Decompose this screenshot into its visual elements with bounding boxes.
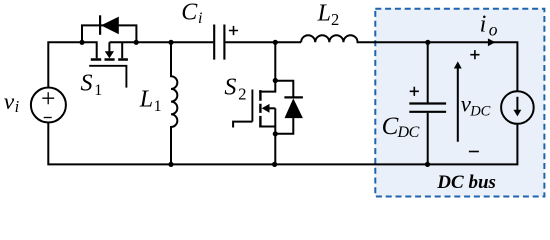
svg-text:C: C [382, 113, 399, 140]
svg-text:i: i [15, 97, 20, 116]
svg-text:1: 1 [94, 82, 102, 99]
svg-text:DC: DC [397, 124, 420, 141]
svg-text:S: S [81, 71, 93, 97]
svg-text:2: 2 [331, 10, 339, 29]
svg-text:DC bus: DC bus [436, 172, 496, 193]
svg-text:o: o [489, 20, 498, 40]
svg-text:L: L [317, 1, 331, 27]
svg-text:S: S [224, 75, 236, 101]
svg-text:i: i [198, 10, 202, 27]
svg-text:i: i [480, 12, 487, 38]
svg-text:v: v [4, 89, 15, 115]
svg-text:C: C [181, 0, 198, 26]
svg-text:L: L [139, 87, 153, 113]
svg-text:DC: DC [469, 103, 490, 119]
svg-text:2: 2 [238, 84, 246, 103]
svg-text:1: 1 [154, 98, 162, 115]
